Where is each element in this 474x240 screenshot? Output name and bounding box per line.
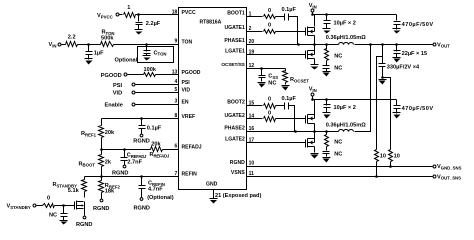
- node 330uF gnd junction: [381, 76, 384, 79]
- svg-text:NC: NC: [334, 139, 342, 145]
- ground (CTON): [143, 56, 151, 61]
- capacitor 470uF/50V (VIN2): [394, 100, 434, 114]
- capacitor 330uF/2V x4: [379, 64, 420, 78]
- inductor L1: [339, 42, 354, 44]
- wire Enable to EN pin 3: [136, 104, 179, 106]
- wire PHASE2 pin 16: [247, 131, 339, 133]
- node CREFADJ junction: [123, 148, 126, 151]
- ground (NC1): [323, 72, 331, 77]
- svg-text:11: 11: [249, 171, 255, 177]
- ground (10uF VIN2): [323, 113, 331, 119]
- wire VIN1 down: [312, 13, 314, 15]
- terminal VGND_SNS: [433, 164, 462, 170]
- svg-text:18k: 18k: [105, 189, 115, 195]
- node VIN2 junction: [311, 98, 314, 101]
- svg-text:100k: 100k: [144, 67, 157, 73]
- node 330uF junction on VOUT rail: [381, 43, 384, 46]
- capacitor 0.1uF (BOOT2): [282, 96, 297, 110]
- svg-text:NC: NC: [334, 53, 342, 59]
- node RGND terminal (RREF2): [93, 199, 109, 212]
- svg-text:EN: EN: [182, 100, 189, 106]
- wire R0 to Q2 gate: [276, 31, 306, 33]
- ground (standby cap): [60, 221, 68, 225]
- svg-text:4.7nF: 4.7nF: [148, 187, 163, 193]
- capacitor 10uF x2 (VIN1): [324, 15, 356, 29]
- svg-text:RGND: RGND: [76, 222, 92, 228]
- svg-text:PHASE2: PHASE2: [224, 125, 245, 131]
- svg-text:0: 0: [268, 110, 271, 116]
- resistor ROCSET: [283, 69, 310, 85]
- capacitor 2.2uF: [136, 15, 161, 30]
- wire R0 to Q1 gate: [55, 205, 75, 207]
- svg-text:3: 3: [175, 99, 178, 105]
- svg-text:BOOT2: BOOT2: [227, 100, 245, 106]
- svg-text:VSTANDBY: VSTANDBY: [7, 204, 31, 210]
- resistor 0 (standby): [43, 195, 55, 207]
- svg-text:ROCSET: ROCSET: [290, 77, 309, 83]
- node VIN1 junction: [311, 13, 314, 16]
- svg-text:RREFADJ: RREFADJ: [150, 152, 170, 158]
- node REFIN junction: [100, 175, 103, 178]
- svg-text:12: 12: [249, 63, 255, 69]
- wire UGATE1 pin 2: [247, 31, 263, 33]
- node REFADJ junction: [100, 148, 103, 151]
- wire VOUT sense to VSNS wire: [376, 162, 378, 177]
- wire 330uF top / VOUT sense tap: [377, 45, 383, 150]
- terminal VPVCC: [97, 13, 119, 19]
- node NC1 junction: [325, 43, 328, 46]
- svg-text:RGND: RGND: [112, 171, 128, 177]
- svg-text:0: 0: [268, 97, 271, 103]
- resistor NC (phase2): [325, 132, 343, 151]
- wire VSTANDBY to R0: [37, 205, 43, 207]
- pin 21 exposed pad stub: [214, 190, 262, 199]
- svg-text:PHASE1: PHASE1: [224, 38, 245, 44]
- node NC2 junction: [325, 130, 328, 133]
- resistor 0 (BOOT1): [264, 8, 276, 19]
- svg-text:VOUT_SNS: VOUT_SNS: [437, 174, 461, 180]
- svg-text:PSI: PSI: [182, 80, 191, 86]
- node VIN/1uF junction: [87, 43, 90, 46]
- svg-text:20k: 20k: [151, 142, 161, 148]
- resistor 0 (UGATE1): [264, 23, 276, 34]
- wire VREF down to RREF1: [101, 119, 103, 126]
- resistor 10 (GND sense): [389, 150, 400, 162]
- svg-text:GND: GND: [206, 182, 218, 188]
- wire RBOOT to REFIN rail: [101, 167, 103, 177]
- svg-text:VIN: VIN: [309, 3, 317, 9]
- wire VIN2 down: [312, 96, 314, 100]
- node RGND terminal (CREFIN): [134, 198, 150, 212]
- svg-text:NC: NC: [334, 152, 342, 158]
- resistor RSTANDBY 5.1k: [53, 177, 87, 195]
- capacitor 10uF x2 (VIN2): [324, 100, 356, 113]
- wire R1 to PVCC pin 18: [136, 14, 179, 16]
- svg-text:VGND_SNS: VGND_SNS: [437, 164, 462, 170]
- node 10uF junction (VIN1): [325, 13, 328, 16]
- terminal VIN (phase2): [309, 87, 317, 96]
- capacitor 470uF/50V (VIN1): [394, 15, 434, 30]
- node RGND terminal (Q1 source): [76, 216, 92, 228]
- svg-text:7: 7: [175, 171, 178, 177]
- ground (10uF VIN1): [323, 29, 331, 34]
- svg-text:LGATE2: LGATE2: [225, 137, 245, 143]
- svg-text:RGND: RGND: [134, 206, 150, 212]
- capacitor 0.1uF (BOOT1): [282, 7, 297, 21]
- terminal VOUT: [433, 42, 450, 48]
- node 10uF junction (VIN2): [325, 98, 328, 101]
- wire R0 to Q4 gate: [276, 118, 306, 120]
- capacitor 22uF x15: [394, 45, 428, 58]
- svg-text:20: 20: [249, 39, 255, 45]
- svg-text:RGND: RGND: [230, 160, 245, 166]
- svg-text:0.36µH/1.05mΩ: 0.36µH/1.05mΩ: [326, 122, 367, 128]
- terminal PGOOD: [101, 73, 127, 79]
- wire VID to pin 5: [136, 92, 179, 94]
- svg-text:20k: 20k: [105, 130, 115, 136]
- ground (330uF): [379, 80, 387, 85]
- node CREFIN junction: [140, 175, 143, 178]
- node phase1 FET junction: [313, 43, 316, 46]
- resistor 0 (UGATE2): [264, 110, 276, 121]
- resistor 0 (BOOT2): [264, 97, 276, 109]
- svg-text:2.7nF: 2.7nF: [127, 159, 142, 165]
- wire BOOT1 pin 1: [247, 16, 263, 18]
- svg-text:CREFADJ: CREFADJ: [127, 153, 147, 159]
- svg-text:VREF: VREF: [182, 114, 196, 120]
- svg-text:CTON: CTON: [154, 50, 167, 56]
- capacitor CREFIN 4.7nF: [139, 177, 174, 201]
- node VREF/0.1uF junction: [140, 117, 143, 120]
- ground (exposed pad): [210, 199, 218, 204]
- capacitor NC (phase1): [323, 66, 343, 72]
- svg-text:5.1k: 5.1k: [68, 188, 80, 194]
- svg-text:10: 10: [249, 161, 255, 167]
- terminal VOUT_SNS: [433, 174, 461, 180]
- resistor 2.2 (VIN series): [66, 35, 78, 47]
- capacitor 0.1uF (VREF): [139, 119, 162, 135]
- pin numbers right side: [249, 11, 255, 176]
- wire GND sense tap: [383, 78, 391, 150]
- svg-text:10µF × 2: 10µF × 2: [334, 21, 356, 27]
- resistor RBOOT 2k: [79, 155, 112, 168]
- node VOUT sense on VSNS wire: [375, 175, 378, 178]
- wire to CBOOT2: [276, 105, 285, 107]
- svg-text:PGOOD: PGOOD: [182, 70, 201, 76]
- svg-text:RREF1: RREF1: [81, 131, 97, 137]
- wire to CBOOT1: [276, 16, 285, 18]
- node TON/CTON junction: [145, 43, 148, 46]
- svg-text:RGND: RGND: [133, 139, 149, 145]
- resistor NC (phase1): [325, 45, 343, 66]
- svg-text:UGATE1: UGATE1: [225, 25, 245, 31]
- svg-text:1: 1: [127, 5, 130, 11]
- node RGND terminal (0.1uF): [133, 134, 149, 145]
- wire RGND pin 10: [247, 166, 433, 168]
- svg-text:VIN: VIN: [49, 42, 57, 48]
- wire to node: [78, 44, 101, 46]
- wire RTON to TON pin 9: [114, 44, 179, 46]
- IC U1 RT8816A body: [179, 8, 247, 190]
- svg-text:RBOOT: RBOOT: [79, 161, 96, 167]
- transistor Q4 (high-side phase2): [306, 100, 315, 132]
- svg-text:0.1µF: 0.1µF: [282, 7, 297, 13]
- wire VREF pin 8 to left rail: [102, 118, 179, 120]
- ground (NC2): [323, 158, 331, 163]
- transistor Q3 (low-side phase1): [306, 45, 315, 65]
- node boot1 riser junction: [297, 43, 300, 46]
- svg-text:NC: NC: [49, 213, 57, 219]
- svg-text:TON: TON: [182, 39, 193, 45]
- svg-text:9: 9: [175, 39, 178, 45]
- terminal VIN (left): [49, 42, 61, 48]
- VOUT rail: [355, 44, 433, 46]
- wire CBOOT2 to phase2 node: [289, 106, 295, 132]
- wire REFADJ node down to RBOOT: [101, 150, 103, 155]
- svg-text:5: 5: [175, 87, 178, 93]
- resistor RTON 500k: [101, 30, 115, 47]
- svg-text:Enable: Enable: [105, 102, 123, 108]
- wire VPVCC to R1: [119, 14, 123, 16]
- svg-text:2.2: 2.2: [68, 35, 76, 41]
- svg-text:10: 10: [394, 154, 400, 160]
- wire OCSET/SS pin 12: [247, 68, 286, 70]
- capacitor CSS (NC): [259, 69, 279, 87]
- node phase2 riser on VOUT rail: [369, 43, 372, 46]
- svg-text:NC: NC: [334, 66, 342, 72]
- svg-text:10: 10: [380, 154, 386, 160]
- svg-text:470µF/50V: 470µF/50V: [402, 22, 434, 28]
- svg-text:PSI: PSI: [113, 83, 122, 89]
- svg-text:0: 0: [268, 23, 271, 29]
- svg-text:RGND: RGND: [93, 206, 109, 212]
- pin numbers left side: [172, 9, 178, 176]
- svg-text:VPVCC: VPVCC: [97, 13, 113, 19]
- ground (ROCSET): [282, 86, 290, 91]
- svg-text:PVCC: PVCC: [182, 10, 196, 16]
- node phase2 FET junction: [313, 130, 316, 133]
- svg-text:10µF × 2: 10µF × 2: [334, 105, 356, 111]
- svg-text:22µF × 15: 22µF × 15: [402, 51, 427, 57]
- svg-text:VIN: VIN: [309, 87, 317, 93]
- wire PSI to pin 4: [136, 84, 179, 86]
- ground (470uF VIN1): [393, 29, 401, 34]
- svg-text:1µF: 1µF: [94, 51, 104, 57]
- svg-text:PGOOD: PGOOD: [101, 73, 122, 79]
- svg-text:REFIN: REFIN: [182, 172, 198, 178]
- svg-text:VOUT: VOUT: [437, 42, 450, 48]
- resistor RREF1 20k: [81, 126, 115, 138]
- resistor 1 (PVCC series): [124, 5, 136, 17]
- svg-text:UGATE2: UGATE2: [225, 113, 245, 119]
- wire PGOOD to 100k: [128, 74, 144, 76]
- node PVCC/C2 junction: [137, 13, 140, 16]
- ground (470uF VIN2): [393, 113, 401, 119]
- svg-text:(Optional): (Optional): [147, 195, 174, 201]
- ground (Q5 source): [311, 154, 319, 159]
- wire CBOOT1 to phase1 node: [289, 17, 298, 45]
- resistor RREFADJ 20k: [150, 142, 170, 159]
- capacitor CTON: [144, 45, 167, 57]
- REFIN rail wire: [85, 176, 179, 178]
- capacitor NC (phase2): [323, 152, 343, 158]
- node NC cap junction: [62, 204, 65, 207]
- terminal VIN (phase1): [309, 3, 317, 12]
- resistor RREF2 18k: [99, 177, 121, 200]
- svg-text:6: 6: [175, 144, 178, 150]
- capacitor 1uF: [86, 45, 105, 60]
- wire RREF1 to REFADJ node: [101, 138, 103, 150]
- wire VIN to R2.2: [62, 44, 66, 46]
- svg-text:0: 0: [268, 8, 271, 14]
- svg-text:RT8816A: RT8816A: [200, 20, 222, 26]
- optional box CTON: [138, 47, 174, 63]
- svg-text:REFADJ: REFADJ: [182, 145, 202, 151]
- svg-text:LGATE1: LGATE1: [225, 49, 245, 55]
- VIN1 rail: [313, 14, 397, 16]
- wire REFADJ rail: [102, 149, 151, 151]
- svg-text:BOOT1: BOOT1: [227, 11, 245, 17]
- svg-text:VSNS: VSNS: [231, 170, 245, 176]
- wire GND sense to RGND wire: [390, 162, 392, 167]
- terminal VID: [113, 90, 135, 96]
- wire 100k to PGOOD pin 13: [156, 74, 179, 76]
- wire PHASE1 pin 20: [247, 44, 339, 46]
- ground (22uF): [393, 58, 401, 63]
- wire BOOT2 pin 15: [247, 105, 263, 107]
- svg-text:500k: 500k: [101, 36, 114, 42]
- svg-text:330µF/2V ×4: 330µF/2V ×4: [387, 65, 420, 71]
- transistor Q2 (high-side phase1): [306, 15, 315, 45]
- ground (Q3 source): [311, 65, 319, 70]
- transistor Q1 (standby N-MOSFET): [75, 192, 85, 216]
- VIN2 rail: [313, 99, 397, 101]
- ground (CSS): [258, 83, 266, 88]
- resistor 10 (VOUT sense): [375, 150, 387, 162]
- wire RREFADJ to REFADJ pin 6: [163, 149, 179, 151]
- svg-text:CSS: CSS: [268, 74, 278, 80]
- svg-text:0.1µF: 0.1µF: [147, 126, 162, 132]
- terminal Enable: [105, 102, 135, 108]
- capacitor NC (standby): [49, 206, 68, 221]
- node GND sense on RGND wire: [389, 165, 392, 168]
- terminal VSTANDBY: [7, 204, 36, 210]
- wire LGATE1 pin 19: [247, 54, 306, 56]
- node CSS junction: [260, 67, 263, 70]
- inductor L2: [339, 129, 354, 131]
- ground (2.2uF): [135, 30, 143, 35]
- wire UGATE2 pin 14: [247, 118, 263, 120]
- svg-text:0: 0: [47, 195, 50, 201]
- wire LGATE2 pin 17: [247, 142, 306, 144]
- wire VSNS pin 11: [247, 176, 433, 178]
- svg-text:Optional: Optional: [115, 58, 138, 64]
- ground (1uF): [85, 59, 93, 65]
- node boot2 riser junction: [294, 130, 297, 133]
- node 22uF junction on VOUT rail: [395, 43, 398, 46]
- svg-text:2k: 2k: [105, 159, 112, 165]
- node RGND terminal (CREFADJ): [112, 165, 128, 177]
- wire L2 to VOUT riser: [355, 45, 371, 132]
- svg-text:OCSET/SS: OCSET/SS: [221, 62, 245, 68]
- capacitor CREFADJ 2.7nF: [121, 150, 148, 166]
- terminal PSI: [113, 83, 135, 89]
- svg-text:21 (Exposed pad): 21 (Exposed pad): [215, 193, 261, 199]
- resistor 100k (PGOOD): [144, 67, 157, 77]
- svg-text:VID: VID: [113, 90, 122, 96]
- svg-text:0.36µH/1.05mΩ: 0.36µH/1.05mΩ: [326, 35, 367, 41]
- svg-text:VID: VID: [182, 88, 191, 94]
- svg-text:2.2µF: 2.2µF: [146, 21, 161, 27]
- svg-text:NC: NC: [268, 80, 276, 86]
- svg-text:470µF/50V: 470µF/50V: [402, 106, 434, 112]
- transistor Q5 (low-side phase2): [306, 132, 315, 153]
- svg-text:0.1µF: 0.1µF: [282, 96, 297, 102]
